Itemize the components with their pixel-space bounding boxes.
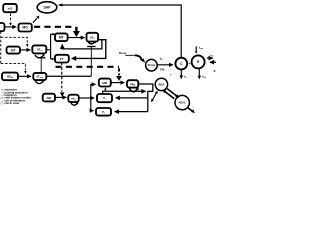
svg-text:InS: InS [8,6,13,10]
box InS (top-left rounded box) [3,4,17,12]
box P2 [96,108,111,116]
wire Abq to junction and into P1 [79,97,95,99]
wire NT to ATa left [20,49,30,51]
box NB (chain start) [43,94,55,102]
svg-text:ADAC: ADAC [178,101,186,105]
circle SCsite [146,59,158,71]
wire edge-box to MO [5,26,16,28]
svg-text:SAP: SAP [44,6,52,10]
box ATmua [33,73,46,80]
box Abq [68,95,78,102]
wire ATa left output to MT and FT [46,34,52,59]
svg-text:cell-in state: cell-in state [4,101,19,105]
circle C [175,58,187,70]
wire dashed InS down to MO input arrow [10,13,12,22]
proliferation loop under ATa right [88,42,95,44]
wire dashed FT down to cell chain [61,63,63,92]
wire NF to ATmua [18,75,31,77]
wire inhibition vertical ATmua to ATa left [40,58,42,73]
wire P1 up to MB bottom and to feedback junction [103,91,146,94]
wire double-headed diagonal junction-ADA [153,93,156,99]
proliferation loop under AbM [129,88,137,92]
wire kint out of R [198,69,200,76]
wire dashed rail on left edge [0,31,2,63]
svg-text:NB: NB [47,96,52,100]
svg-text:kint: kint [202,76,206,80]
proliferation loop under Abq [71,103,77,105]
box MB [99,79,111,87]
wire junction up into MB [91,84,96,98]
wire inhibition vertical from ATmua out [90,47,92,77]
wire R binding exchange right [207,57,213,59]
wire AbM feedback to P1 [116,97,148,99]
box ATa left [32,45,46,53]
svg-text:MB: MB [102,81,108,85]
wire dashed branch to NT arrow [1,37,28,43]
legend text [4,88,31,106]
svg-text:NT: NT [11,48,15,52]
arrow thick down onto MT-ATa line [75,27,77,31]
svg-text:ADA: ADA [158,83,164,87]
circle ADAC complex [175,95,189,109]
wire SC to C [157,64,173,66]
ellipse SAP [37,2,57,13]
box edge-left (cut off at image edge) [0,23,5,31]
svg-text:R·C: R·C [214,70,216,73]
svg-text:T/M: T/M [160,68,164,72]
wire bracket ATa right to FT [72,40,106,59]
proliferation loop under ATmua [35,81,43,84]
box NFkB [2,73,18,81]
box ATa right [87,33,99,42]
svg-text:ke: ke [184,76,186,80]
wire MO to SAP (diagonal arrow) [33,18,37,23]
wire dashed branch to NF arrow [1,64,26,71]
wire thick dashed MO priming line [34,26,75,28]
svg-text:MO: MO [22,26,28,30]
proliferation loop under ATa left [35,55,44,58]
wire Dose elbow into SC [125,54,135,56]
wire AbM feedback to P2 [115,111,148,113]
wire complex elimination [188,108,192,111]
svg-text:+: + [170,73,172,77]
svg-text:Dose: Dose [119,51,127,55]
svg-text:MT: MT [59,36,64,40]
wire ADA-complex exchange (double diagonal) [167,89,176,96]
wire NB to Abq [55,96,66,98]
box NT [7,47,21,54]
svg-text:SCsite: SCsite [148,64,156,67]
circle R [192,55,205,68]
box P1 [97,94,112,102]
wire junction down into P2 [91,98,94,111]
wire MB to AbM [111,82,124,84]
wire ksyn into R [195,46,197,51]
box FT [55,55,69,63]
wire bracket ATa right to MT bottom [62,40,102,49]
wire ATmua output to inhibition vertical [46,75,91,77]
box MT [55,33,68,41]
wire MT to ATa right [68,37,85,39]
wire AbM feedback trunk [139,84,153,112]
svg-text:C: C [180,62,183,66]
svg-text:ksyn: ksyn [199,47,203,50]
wire thick dashed FT priming to MB-Ab line [56,66,120,68]
svg-text:+: + [189,62,191,66]
box AbM [127,80,138,87]
circle ADA [155,78,167,90]
box MO [19,24,32,32]
wire ke out of C [180,70,182,75]
inhibition T-bar under ATa right (from ATmua) [87,46,95,48]
wire long feedback from C up and left into SAP [60,5,181,57]
svg-text:FT: FT [60,57,64,61]
inhibition T-bar under ATa left [37,57,45,59]
